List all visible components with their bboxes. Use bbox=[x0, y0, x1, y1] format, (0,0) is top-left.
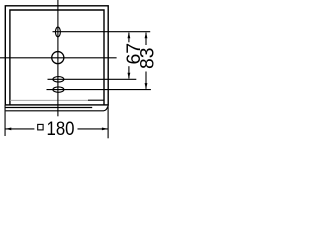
slot hole 1 bbox=[53, 77, 64, 82]
dimension line 180 (horizontal at y=128.9) bbox=[5, 128, 108, 131]
side-view bottom line bbox=[6, 107, 108, 111]
svg-text:83: 83 bbox=[137, 48, 157, 69]
outer square (fixture plan outline) bbox=[5, 6, 108, 105]
center circle hole bbox=[52, 52, 64, 64]
side-view rim line bbox=[5, 107, 92, 109]
svg-text:180: 180 bbox=[47, 118, 75, 139]
inner square (plan inner edge) bbox=[10, 10, 104, 105]
square symbol of label bbox=[38, 124, 43, 129]
inner square bottom edge right segment bbox=[88, 99, 104, 101]
dimension line 67 (vertical at x=128.9) bbox=[128, 32, 131, 79]
slot hole 2 bbox=[53, 87, 64, 92]
vertical centerline bbox=[57, 0, 59, 116]
horizontal centerline bbox=[0, 57, 117, 59]
top slot hole bbox=[55, 27, 60, 37]
extension line left (x=5.05) bbox=[4, 105, 6, 136]
inner square faint bottom edge bbox=[10, 99, 88, 101]
extension line C (slot hole 2) bbox=[47, 89, 151, 91]
extension line B (slot hole 1) bbox=[48, 78, 137, 80]
dimension line 83 (vertical at x=146) bbox=[145, 32, 148, 89]
extension line A (top slot, y=31.7) bbox=[53, 31, 151, 33]
extension line right (x=108.1) bbox=[107, 105, 109, 138]
